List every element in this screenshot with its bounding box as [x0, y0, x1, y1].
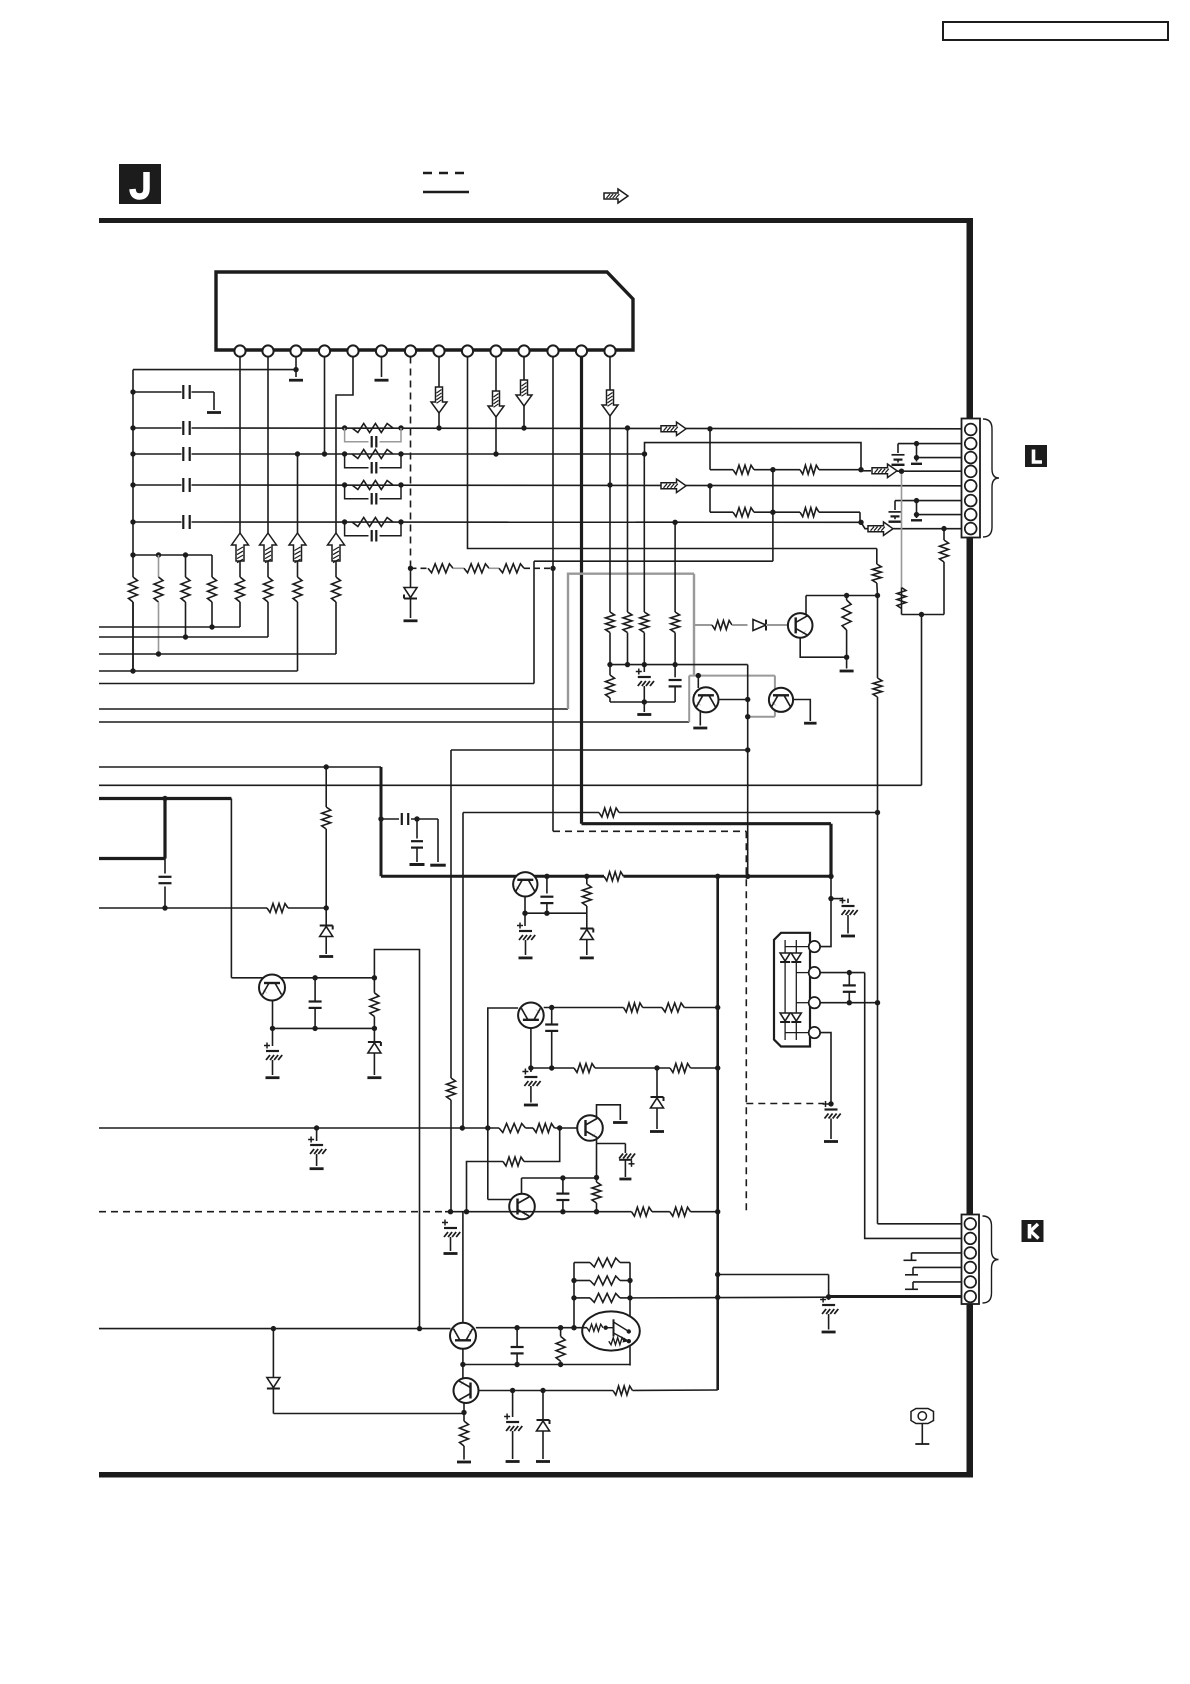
wire row 664 — [610, 664, 748, 666]
wire pin5 jog — [336, 357, 353, 534]
wire Q1 base stub — [697, 676, 699, 688]
wire Q4 collector row 1007 — [544, 1007, 624, 1009]
wire row 561 — [534, 560, 773, 562]
resistor row1068 a — [574, 1064, 595, 1073]
resistor row1390 — [613, 1386, 633, 1395]
capacitor C402 inline — [378, 816, 383, 821]
wire row 671 — [99, 670, 298, 672]
arrow down pin10 — [488, 391, 504, 417]
resistor rail876 inline — [604, 872, 624, 881]
resistor row1212 a — [632, 1207, 653, 1216]
diode D657 — [656, 1068, 658, 1098]
wire rect pin2 — [820, 972, 865, 974]
photocoupler oval — [582, 1311, 640, 1350]
jog Q5 base — [557, 1125, 562, 1130]
rectifier internal diodes — [784, 940, 786, 1040]
dashed col 746 — [745, 831, 747, 1211]
resistor-cap network row 454 — [342, 451, 347, 456]
wire rect pin1 — [820, 876, 831, 946]
wire Q4 base — [488, 1008, 518, 1200]
ground C438 — [437, 819, 439, 862]
diode D326 — [325, 908, 327, 927]
header reference box — [943, 22, 1168, 40]
wire row 654 — [99, 653, 336, 655]
wire col878 down — [877, 596, 879, 679]
capacitor C898 — [897, 444, 899, 453]
wire Q5 collector — [597, 1105, 621, 1120]
wire — [633, 1389, 718, 1392]
node bus junction — [130, 519, 135, 524]
rectifier pin 3 — [809, 997, 820, 1008]
wire — [691, 1067, 718, 1069]
connector L pin 5 — [965, 480, 977, 492]
wire row 1128 — [99, 1127, 499, 1129]
capacitor C512 electrolytic — [512, 1391, 514, 1418]
transistor Q7 — [450, 1323, 476, 1349]
wire pin3 stem — [295, 357, 297, 378]
arrow up pin1 — [232, 533, 249, 561]
resistor fan r2 — [574, 1280, 590, 1282]
node bus junction — [130, 389, 135, 394]
transistor Q4a — [513, 872, 537, 896]
wire — [732, 624, 748, 626]
resistor row1068 b — [670, 1064, 691, 1073]
wire pin7 dashed — [410, 357, 412, 569]
capacitor C675 — [674, 665, 676, 678]
ground L pin7 stub — [911, 519, 922, 521]
arrow right row485 — [661, 479, 686, 493]
wire Q4 emitter — [530, 1028, 532, 1068]
IC1 pin 5 — [347, 345, 358, 356]
diode D374 — [373, 1028, 375, 1043]
wire Q3 emitter — [800, 638, 846, 658]
diode D587 — [586, 913, 588, 929]
wire pin1 column — [239, 357, 241, 534]
wire col630 — [629, 1263, 631, 1366]
wire pin6 stem — [381, 357, 383, 378]
capacitor C row4 — [182, 478, 184, 492]
diode D754 — [753, 620, 766, 631]
wire pin11 — [523, 357, 525, 429]
wire row 785 — [99, 784, 922, 786]
resistor R464 — [460, 1421, 469, 1446]
connector K label — [1022, 1220, 1044, 1242]
wire L pin6-7 link — [916, 501, 918, 518]
capacitor C849 — [848, 973, 850, 986]
resistor-cap network row 522 — [342, 519, 347, 524]
transistor Q6 — [521, 1178, 523, 1194]
transistor Q5a — [259, 975, 285, 1001]
wire rect pin4 — [820, 1033, 831, 1104]
resistor R675 — [674, 522, 676, 612]
resistor row1007 a — [624, 1003, 643, 1012]
wire row428 to resistor pair — [709, 429, 711, 470]
wire row485 to resistor pair — [709, 486, 711, 512]
wire Q8 base row 1390 — [479, 1390, 614, 1392]
connector L pin 7 — [965, 509, 977, 521]
wire row 813 — [463, 812, 599, 814]
connector K pin 3 — [965, 1247, 977, 1259]
arrow up col3 — [289, 533, 306, 561]
wire net534 vertical — [533, 561, 535, 683]
connector L pin 2 — [965, 438, 977, 450]
connector K pin 2 — [965, 1233, 977, 1245]
wire Q6 base — [488, 1199, 511, 1201]
connector L body — [962, 419, 981, 538]
node row470 mid — [754, 469, 800, 471]
IC1 pin 11 — [518, 345, 529, 356]
resistor R560 — [560, 1328, 562, 1337]
oval internal resistor 2 — [609, 1338, 625, 1345]
capacitor C row1 wire — [133, 391, 182, 393]
capacitor C551 — [551, 1008, 553, 1025]
resistor row813 — [599, 808, 619, 817]
connector K pin 1 — [965, 1218, 977, 1230]
wire gray col775 — [774, 676, 776, 717]
wire row 614 — [902, 614, 945, 616]
resistor R7 — [297, 561, 299, 577]
resistor R610 — [609, 485, 611, 612]
wire L pin3 line — [917, 457, 962, 459]
wire row 978 — [231, 977, 374, 979]
node row512 mid — [754, 511, 800, 513]
arrow down pin14 — [602, 390, 618, 416]
ground C898 — [892, 464, 905, 466]
board border bottom — [99, 1472, 973, 1478]
resistor R374 — [372, 975, 377, 980]
node bus junction — [130, 425, 135, 430]
IC1 pin 7 — [405, 345, 416, 356]
resistor row908 inline — [267, 904, 288, 913]
wire row 1413 — [273, 1413, 464, 1415]
rectifier pin 4 — [809, 1027, 820, 1038]
resistor-cap network row 428 — [342, 425, 347, 430]
capacitor C828 electrolytic — [828, 1297, 830, 1301]
transistor Q4 — [518, 1003, 544, 1029]
dashed row 831 — [553, 830, 746, 832]
jog b — [467, 1162, 504, 1212]
connector L pin 8 — [965, 523, 977, 535]
capacitor C562 — [562, 1178, 564, 1193]
oval internal resistor — [587, 1324, 603, 1331]
wire col463 — [462, 813, 464, 1129]
ground Q3 — [846, 657, 848, 668]
dashed row 1212 — [99, 1211, 445, 1213]
wire Q2 collector — [793, 700, 810, 722]
ground row702 — [643, 702, 645, 712]
arrow up pin5 — [328, 533, 345, 561]
IC1 pin 4 — [319, 345, 330, 356]
gray link row443 — [645, 443, 862, 470]
K pin5 stub — [913, 1281, 962, 1283]
resistor row1128 a — [499, 1124, 526, 1133]
wire row 637 — [99, 636, 268, 638]
wire row 709 — [99, 708, 568, 710]
wire row 750 — [451, 749, 748, 751]
connector L label — [1025, 445, 1047, 467]
ground pin6 — [375, 379, 389, 382]
wire Q1 emitter — [699, 710, 701, 726]
wire pin3 top row — [133, 369, 296, 371]
wire row 683 — [99, 683, 534, 685]
IC1 pin 12 — [547, 345, 558, 356]
wire — [595, 1067, 670, 1069]
board border top — [99, 218, 973, 223]
node bus junction — [130, 552, 135, 557]
wire resistor tops — [133, 554, 212, 556]
resistor R944 — [941, 526, 946, 531]
resistor R5 — [239, 561, 241, 577]
dashed stub 1103 — [746, 1103, 824, 1105]
resistor R8 — [335, 561, 337, 577]
wire — [691, 1211, 718, 1213]
legend dashed line — [423, 172, 464, 175]
bus left vertical — [132, 370, 134, 577]
node 644 row454 — [642, 451, 647, 456]
transistor Q1 — [693, 687, 718, 712]
screw symbol — [911, 1409, 934, 1424]
wire Q1 collector — [719, 699, 748, 701]
arrow down pin8 — [431, 387, 447, 413]
connector L pin 1 — [965, 424, 977, 436]
wire row 767 — [99, 766, 381, 768]
wire L pin6 line — [895, 500, 962, 502]
capacitor C547 — [544, 874, 549, 879]
IC1 pin 9 — [462, 345, 473, 356]
diode D273 — [272, 1329, 274, 1378]
wire Q4a emitter — [524, 896, 526, 913]
resistor R610b — [609, 665, 611, 675]
IC1 pin 10 — [490, 345, 501, 356]
wire col921 down — [921, 615, 923, 786]
IC1 pin 8 — [433, 345, 444, 356]
wire gray col689 — [688, 676, 690, 722]
IC1 pin 6 — [376, 345, 387, 356]
wire — [652, 1211, 670, 1213]
transistor Q5 — [577, 1115, 603, 1141]
transistor Q8 — [454, 1378, 479, 1403]
wire row 1068 — [531, 1067, 574, 1069]
resistor row1007 b — [662, 1003, 684, 1012]
wire pin12 — [552, 357, 554, 832]
resistor R644 — [643, 454, 645, 612]
wire gray jog 568 — [568, 574, 694, 709]
resistor row1212 b — [670, 1207, 691, 1216]
capacitor C316 electrolytic — [316, 1128, 318, 1141]
wire — [643, 1007, 662, 1009]
capacitor C row1 — [182, 385, 184, 399]
resistor R501 jog — [503, 1157, 524, 1166]
node bus junction — [130, 482, 135, 487]
legend arrow — [604, 189, 628, 203]
connector K pin 5 — [965, 1276, 977, 1288]
node pin3 junction — [293, 367, 298, 372]
wire gray col902 — [901, 471, 903, 587]
wire Q5a emitter — [272, 1000, 274, 1029]
resistor-cap network row 485 — [342, 482, 347, 487]
wire gray row716 — [748, 716, 775, 718]
capacitor C831 electrolytic — [823, 1103, 829, 1105]
capacitor C315 — [312, 975, 317, 980]
wire col865 — [865, 973, 962, 1239]
wire row 1328 collector — [476, 1327, 587, 1329]
resistor R627 — [627, 428, 629, 612]
capacitor C row2 — [182, 421, 184, 435]
wire row 522 — [133, 521, 182, 523]
wire — [684, 1007, 717, 1009]
capacitor C644 electrolytic — [643, 665, 645, 672]
arrow right row528 — [861, 522, 869, 528]
resistor R901 — [901, 588, 903, 615]
thick rail 876 — [381, 875, 604, 878]
connector L pin 4 — [965, 466, 977, 478]
resistor R846 — [846, 596, 848, 601]
title label J — [119, 164, 161, 204]
capacitor C895 — [894, 501, 896, 510]
wire L pin7 line — [917, 514, 962, 516]
dashed row 568 with resistors — [411, 567, 429, 569]
wire row 1364 — [463, 1364, 630, 1366]
wire — [766, 624, 788, 626]
wire row 1328 — [99, 1328, 451, 1330]
wire pin13 thick — [580, 357, 583, 824]
wire row 1274 — [718, 1274, 829, 1276]
capacitor C848 electrolytic — [831, 898, 843, 900]
wire pin14 — [609, 357, 611, 486]
wire col231 — [230, 799, 232, 978]
wire row 485 — [133, 484, 182, 486]
resistor R3 — [185, 555, 187, 577]
connector L pin 3 — [965, 452, 977, 464]
resistor R6 — [267, 561, 269, 577]
ground C895 — [889, 521, 902, 523]
resistor R326 — [325, 767, 327, 807]
wire link 374-949 — [374, 950, 419, 1329]
ground pin3 — [289, 379, 303, 382]
resistor R4 — [211, 555, 213, 577]
power rail thick row 858 — [99, 857, 165, 860]
wire row 627 — [99, 626, 240, 628]
wire row 1028 — [273, 1027, 375, 1029]
wire pin9 — [468, 357, 877, 549]
IC1 pin 14 — [604, 345, 615, 356]
rectifier pin 2 — [809, 967, 820, 978]
wire R1 bottom — [132, 602, 134, 671]
connector K brace — [983, 1216, 999, 1303]
IC IC1 body — [216, 272, 633, 350]
resistor row470 b — [800, 465, 819, 474]
wire gray Q3 base feed — [694, 624, 712, 626]
wire pin4 — [324, 357, 326, 455]
capacitor C517 — [516, 1328, 518, 1347]
K pin3 stub — [912, 1252, 962, 1254]
IC1 pin 13 — [576, 345, 587, 356]
wire L pin2 line — [898, 443, 962, 445]
capacitor C525 electrolytic — [524, 913, 526, 926]
capacitor C450 electrolytic — [442, 1222, 448, 1224]
ground row1 — [207, 411, 221, 414]
wire pin2 column — [267, 357, 269, 534]
capacitor C165 — [164, 859, 166, 874]
connector K pin 6 — [965, 1291, 977, 1303]
wire pin10 — [495, 357, 497, 455]
K pin4 stub — [913, 1266, 962, 1268]
capacitor C625 electrolytic — [624, 1144, 626, 1154]
diode D pin7 — [410, 568, 412, 587]
wire col574 — [573, 1263, 575, 1328]
resistor R596 — [592, 1182, 601, 1203]
resistor R712 — [712, 621, 732, 630]
wire row 1178 — [522, 1177, 597, 1179]
wire gray col694 — [693, 574, 695, 676]
wire gray row675 — [689, 675, 775, 677]
legend solid line — [423, 191, 469, 193]
wire col451 — [450, 750, 452, 1078]
wire row 908 — [99, 907, 267, 909]
board border right — [967, 218, 974, 1477]
power rail thick row 798 — [99, 797, 231, 800]
resistor R587 — [584, 874, 589, 879]
node bus junction — [130, 451, 135, 456]
wire row454 column — [297, 454, 299, 533]
arrow up pin2 — [260, 533, 277, 561]
arrow right row470 — [861, 470, 871, 472]
resistor row1128 b — [533, 1124, 555, 1133]
rectifier pack body — [774, 933, 810, 1047]
wire Q7-Q8 link — [462, 1349, 464, 1379]
wire rect pin3 — [820, 1002, 877, 1004]
capacitor C531 electrolytic — [530, 1068, 532, 1072]
transistor Q3 — [805, 596, 807, 617]
wire col748 — [747, 665, 749, 877]
wire row 428 — [133, 427, 182, 429]
resistor fan r1 — [574, 1262, 590, 1264]
thick rail 876 b — [624, 875, 832, 878]
wire row 722 — [99, 721, 689, 723]
wire row 813 b — [619, 812, 878, 814]
thick row 1297 to K — [829, 1295, 962, 1298]
wire row 702 — [610, 701, 675, 703]
resistor R2 — [158, 555, 160, 577]
resistor fan r3 — [574, 1297, 590, 1299]
wire net772 vertical — [772, 470, 774, 562]
diode D543 — [542, 1391, 544, 1422]
capacitor C417 — [416, 819, 418, 839]
arrow right row428 — [661, 422, 686, 436]
wire col381 thick — [380, 767, 383, 876]
wire row 1143 cap branch — [597, 1143, 626, 1145]
wire Q7 top — [462, 1212, 464, 1323]
wire K pin1 riser — [878, 1223, 962, 1225]
capacitor C row3 — [182, 447, 184, 461]
resistor row512 a — [710, 511, 733, 513]
arrow down pin11 — [516, 380, 532, 406]
IC1 pin 2 — [262, 345, 273, 356]
IC1 pin 3 — [290, 345, 301, 356]
ground L pin3 stub — [911, 463, 922, 465]
connector L brace — [983, 419, 999, 537]
jog row512 to row522 — [859, 512, 861, 522]
oval internal transistor — [613, 1319, 615, 1336]
capacitor C row5 — [182, 515, 184, 529]
wire col718 thick — [716, 876, 719, 1390]
resistor R877 — [876, 549, 878, 565]
resistor row470 a — [710, 469, 733, 471]
connector L pin 6 — [965, 495, 977, 507]
connector K pin 4 — [965, 1262, 977, 1274]
wire Q5 emitter — [596, 1140, 598, 1183]
resistor R1 — [129, 577, 138, 602]
